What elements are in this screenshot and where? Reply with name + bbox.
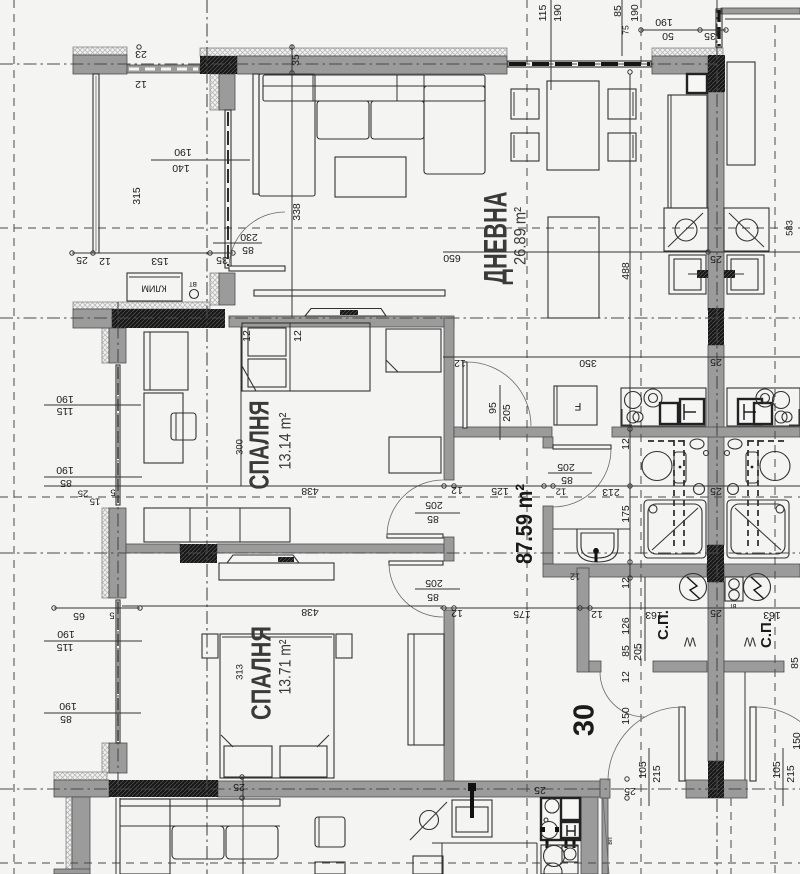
line corridor east edge xyxy=(744,672,746,780)
ext line x783 xyxy=(782,748,784,806)
svg-text:5: 5 xyxy=(110,486,115,497)
svg-text:205: 205 xyxy=(501,404,513,422)
insulation west column A xyxy=(102,328,109,363)
wall between bedrooms west stub xyxy=(126,544,180,553)
svg-text:175: 175 xyxy=(513,608,531,620)
svg-text:85: 85 xyxy=(612,5,624,17)
svg-text:13.14 m²: 13.14 m² xyxy=(276,412,294,469)
svg-text:438: 438 xyxy=(301,606,319,618)
axis horizontal 7 dashed xyxy=(0,862,800,864)
svg-text:12: 12 xyxy=(451,607,463,619)
wall top main (north living) xyxy=(237,56,507,74)
duct dashed lines left xyxy=(673,440,675,548)
burner circles right kitchen xyxy=(773,392,790,409)
stove below xyxy=(541,798,580,840)
axis vertical C dashed xyxy=(526,0,528,874)
shower tray left xyxy=(644,500,706,558)
wall black party B xyxy=(707,545,724,582)
bed bedroom2 xyxy=(220,634,334,778)
svg-text:85: 85 xyxy=(620,645,632,657)
desk bedroom1 south xyxy=(389,437,441,473)
svg-text:вп: вп xyxy=(607,837,614,845)
balcony parapet west xyxy=(93,74,99,253)
dim line door1 xyxy=(415,512,460,514)
line unit boundary east xyxy=(629,74,631,660)
window bedroom2 west xyxy=(116,600,120,743)
kitchen sink dark left xyxy=(660,403,678,424)
dim line left r2 xyxy=(44,476,142,478)
dining chair 2 xyxy=(511,133,539,161)
wall balcony parapet north thin xyxy=(127,65,200,73)
door living-hall xyxy=(463,362,467,428)
svg-text:12: 12 xyxy=(556,485,567,496)
wall black between-bedrooms xyxy=(180,544,217,563)
svg-text:313: 313 xyxy=(235,664,246,680)
dim line bedroom2 y606 xyxy=(122,605,444,607)
wall west column A xyxy=(109,328,126,363)
wall bath west jamb xyxy=(543,437,553,448)
svg-text:115: 115 xyxy=(537,4,549,21)
svg-text:213: 213 xyxy=(602,486,620,498)
ext line x292 xyxy=(291,45,293,317)
svg-text:87.59 m²: 87.59 m² xyxy=(511,484,537,564)
axis vertical B dash-dot xyxy=(206,0,208,874)
door bedroom2 xyxy=(389,561,443,565)
dim line left r5 xyxy=(44,712,141,714)
armchair below xyxy=(315,817,345,847)
dim line top right xyxy=(641,29,726,31)
svg-text:КЛИМ: КЛИМ xyxy=(141,284,166,294)
line storage room left edge xyxy=(644,577,646,661)
svg-text:25: 25 xyxy=(624,785,636,797)
washer below xyxy=(410,802,447,840)
line hall-living boundary xyxy=(443,356,800,358)
wall bedroom2 south / bottom main xyxy=(218,781,600,797)
svg-text:W: W xyxy=(743,635,756,650)
wall black sw xyxy=(109,780,218,797)
svg-text:12: 12 xyxy=(454,357,466,369)
line kitchen counter bottom-left edge xyxy=(432,842,537,844)
svg-text:25: 25 xyxy=(534,784,546,796)
wardrobe bedroom1 south xyxy=(144,508,290,542)
svg-text:126: 126 xyxy=(620,617,632,635)
laundry sink left xyxy=(669,255,706,294)
drain circle right xyxy=(728,484,739,495)
svg-text:25: 25 xyxy=(710,485,722,497)
svg-text:вт: вт xyxy=(189,280,197,289)
shaft box ne corner xyxy=(687,74,707,93)
wall west block lower xyxy=(219,273,235,305)
kitchen counter neighbour xyxy=(727,388,800,426)
svg-text:12: 12 xyxy=(620,671,632,683)
insulation top-right wall xyxy=(652,48,723,56)
wall black balcony south xyxy=(112,309,225,328)
wall bath west lower xyxy=(543,506,553,564)
shower tray right xyxy=(727,500,789,558)
dim line left r1 xyxy=(44,404,141,406)
svg-text:30: 30 xyxy=(569,704,601,736)
wall below corridor thin xyxy=(603,798,609,874)
kitchen counter our unit xyxy=(621,388,706,426)
wall kitchen east bottom xyxy=(581,797,598,874)
insulation west column B xyxy=(102,508,109,598)
axis vertical west wall dash-dot xyxy=(117,302,119,797)
svg-text:190: 190 xyxy=(655,16,673,28)
dim line left r4 xyxy=(44,640,142,642)
wall party vertical upper xyxy=(708,92,724,310)
svg-text:85: 85 xyxy=(427,513,439,525)
svg-text:26.89 m²: 26.89 m² xyxy=(510,207,529,265)
svg-text:215: 215 xyxy=(785,765,797,783)
wall top-left balcony block xyxy=(73,55,127,74)
nightstand bedroom2 right xyxy=(336,634,352,658)
wall corridor west xyxy=(577,568,589,672)
ext line x241 xyxy=(240,327,242,486)
axis vertical G dashed short xyxy=(730,798,732,874)
dining chair 1 xyxy=(511,89,539,119)
svg-text:105: 105 xyxy=(771,761,783,779)
insulation sw wall xyxy=(66,797,72,874)
svg-text:105: 105 xyxy=(637,761,649,779)
svg-text:СПАЛНЯ: СПАЛНЯ xyxy=(245,626,276,720)
svg-text:190: 190 xyxy=(57,628,75,640)
vent box with fan symbol left xyxy=(664,208,708,251)
svg-text:488: 488 xyxy=(620,262,632,280)
svg-text:F: F xyxy=(574,400,581,412)
svg-text:190: 190 xyxy=(552,4,564,22)
door bedroom1 xyxy=(387,534,443,538)
svg-text:150: 150 xyxy=(620,707,632,725)
svg-text:12: 12 xyxy=(620,438,632,450)
vent pipes double circle xyxy=(725,577,743,601)
svg-text:175: 175 xyxy=(620,505,632,523)
toilet left xyxy=(642,452,672,481)
axis vertical A dashed xyxy=(13,0,15,874)
sofa apartment below xyxy=(120,799,280,806)
wall kitchen south A xyxy=(454,427,552,437)
svg-text:190: 190 xyxy=(629,4,641,22)
vent box with fan symbol right xyxy=(724,208,769,251)
door balcony living xyxy=(229,266,285,271)
axis horizontal 2 dashed xyxy=(0,227,800,229)
wall black block top-west xyxy=(200,56,237,74)
coffee table xyxy=(335,157,406,197)
wall balcony south gray xyxy=(73,309,112,328)
wall party vertical lower xyxy=(708,582,724,761)
dim line bathdoor xyxy=(548,472,592,474)
window north living xyxy=(508,61,651,67)
svg-text:85: 85 xyxy=(427,591,439,603)
duct dashed lines right xyxy=(747,440,749,548)
ext line x500 xyxy=(499,385,501,440)
dining chair 3 xyxy=(608,89,636,119)
svg-text:12: 12 xyxy=(620,577,632,589)
dining table xyxy=(547,81,599,170)
line neighbour room top-right xyxy=(725,18,800,20)
wall bath south / corridor north xyxy=(543,564,707,577)
svg-text:205: 205 xyxy=(425,577,443,589)
wall west block upper xyxy=(219,74,235,110)
svg-text:12: 12 xyxy=(135,78,147,90)
wall hall west vertical upper xyxy=(444,318,454,480)
wall black corner ne xyxy=(708,55,725,92)
svg-text:85: 85 xyxy=(561,474,573,486)
door entry left unit xyxy=(679,707,685,781)
wall west column B xyxy=(109,508,126,598)
svg-text:125: 125 xyxy=(491,485,509,497)
svg-text:35: 35 xyxy=(704,30,716,42)
insulation balcony south wall xyxy=(73,302,210,309)
wall hall west vertical block xyxy=(444,537,454,561)
dimension ticks xyxy=(137,45,141,49)
svg-text:115: 115 xyxy=(56,405,73,417)
window top-right vertical xyxy=(716,9,722,47)
svg-text:75: 75 xyxy=(620,25,630,35)
fridge box kitchen xyxy=(554,386,597,425)
wall top-right horizontal (neighbour) xyxy=(721,8,800,14)
svg-text:12: 12 xyxy=(292,330,304,342)
svg-text:65: 65 xyxy=(73,610,85,622)
kitchen sink dark right xyxy=(738,399,762,424)
svg-text:50: 50 xyxy=(662,30,674,42)
dim line balcony row xyxy=(72,252,233,254)
side table below xyxy=(315,862,345,874)
insulation top-left block xyxy=(73,47,127,55)
svg-text:15: 15 xyxy=(90,495,101,506)
ext line x551 xyxy=(550,0,552,90)
axis vertical E dash-dot party xyxy=(716,0,718,874)
bed bedroom1 xyxy=(242,323,370,391)
dim line left r3 xyxy=(54,607,140,609)
insulation west column C xyxy=(102,743,109,773)
sideboard living south wall xyxy=(254,290,445,296)
insulation top main wall xyxy=(200,48,507,56)
svg-text:140: 140 xyxy=(172,162,190,174)
svg-text:205: 205 xyxy=(632,643,644,661)
dim line door2 xyxy=(415,588,460,590)
svg-text:85: 85 xyxy=(60,477,72,489)
wall party bottom flange xyxy=(686,780,747,798)
svg-text:350: 350 xyxy=(579,357,597,369)
dim line 190-140 xyxy=(151,159,250,161)
axis horizontal 3 dash-dot xyxy=(0,317,800,319)
svg-text:315: 315 xyxy=(131,187,143,205)
svg-text:190: 190 xyxy=(174,146,192,158)
wall between bedrooms east xyxy=(217,544,444,553)
window west glass-door living xyxy=(225,110,231,268)
insulation west column lower xyxy=(210,273,219,305)
svg-text:438: 438 xyxy=(301,485,319,497)
washbasin bathroom xyxy=(577,529,618,562)
svg-text:25: 25 xyxy=(78,487,89,498)
dim line y252 xyxy=(443,251,800,253)
burner circles left kitchen xyxy=(625,392,642,409)
svg-text:85: 85 xyxy=(60,713,72,725)
svg-text:583: 583 xyxy=(785,220,796,236)
desk bedroom1 west xyxy=(144,393,183,463)
counter below 2 xyxy=(541,845,578,874)
svg-text:СПАЛНЯ: СПАЛНЯ xyxy=(243,401,274,490)
svg-text:205: 205 xyxy=(425,499,443,511)
svg-text:25: 25 xyxy=(710,607,722,619)
svg-text:190: 190 xyxy=(56,464,74,476)
svg-text:153: 153 xyxy=(151,255,169,267)
dim line 230-85 xyxy=(213,242,262,244)
svg-text:190: 190 xyxy=(56,393,74,405)
cot bedroom1 xyxy=(386,329,441,372)
svg-text:35: 35 xyxy=(290,54,302,66)
insulation west column upper xyxy=(210,74,219,110)
svg-text:25: 25 xyxy=(76,254,88,266)
dim line right y608 xyxy=(440,607,800,609)
svg-text:150: 150 xyxy=(791,732,800,750)
wall sw corner gray xyxy=(54,780,109,797)
drain circle left xyxy=(694,484,705,495)
label ovt symbol xyxy=(190,290,199,299)
svg-text:190: 190 xyxy=(59,700,77,712)
svg-text:215: 215 xyxy=(651,765,663,783)
wardrobe bedroom1 west xyxy=(144,332,188,390)
svg-text:23: 23 xyxy=(135,48,147,60)
tv bedroom2 wall xyxy=(227,555,299,563)
wardrobe bedroom2 east xyxy=(408,634,444,745)
svg-text:95: 95 xyxy=(487,402,499,414)
nightstand bedroom2 left xyxy=(202,634,218,658)
svg-text:13.71 m²: 13.71 m² xyxy=(276,639,294,694)
tv bedroom1 wall xyxy=(305,309,386,317)
sofa sectional xyxy=(253,74,259,194)
ext line x622 xyxy=(621,0,623,56)
laundry sink right xyxy=(727,255,764,294)
svg-text:205: 205 xyxy=(557,461,575,473)
svg-text:12: 12 xyxy=(241,330,253,342)
chair bedroom1 xyxy=(171,413,196,440)
dim line mid y486 xyxy=(44,485,800,487)
insulation sw corner xyxy=(54,772,107,780)
door entry right unit xyxy=(750,707,756,781)
wall bedroom1 north gray xyxy=(229,316,454,327)
svg-text:25: 25 xyxy=(710,356,722,368)
svg-text:85: 85 xyxy=(789,657,800,669)
neighbour counter east xyxy=(727,62,755,165)
axis horizontal 4 dashed xyxy=(0,496,800,498)
svg-text:650: 650 xyxy=(443,252,461,264)
svg-text:ДНЕВНА: ДНЕВНА xyxy=(477,192,513,285)
svg-text:С.П.: С.П. xyxy=(655,610,672,640)
wall stub bottom-left of corridor xyxy=(600,779,610,798)
axis vertical D dashed xyxy=(640,0,642,874)
svg-text:12: 12 xyxy=(451,484,463,496)
wall kitchen south B xyxy=(612,427,800,437)
line bathroom counter xyxy=(553,528,630,530)
svg-text:230: 230 xyxy=(240,231,258,243)
water heater left xyxy=(680,574,707,601)
svg-text:5: 5 xyxy=(109,609,114,620)
svg-text:12: 12 xyxy=(591,608,603,620)
axis horizontal 6 dash-dot xyxy=(0,788,800,790)
sink below xyxy=(452,800,492,837)
svg-text:338: 338 xyxy=(291,203,303,221)
small table below xyxy=(413,856,443,874)
wall black party A xyxy=(708,308,724,345)
wall black party C xyxy=(708,761,724,798)
axis horizontal 5 dash-dot xyxy=(0,552,800,554)
svg-text:35: 35 xyxy=(216,254,228,266)
svg-text:115: 115 xyxy=(56,641,73,653)
door bathroom xyxy=(553,445,611,449)
svg-text:W: W xyxy=(683,635,696,650)
wall party vertical mid xyxy=(708,345,724,545)
svg-text:25: 25 xyxy=(710,253,722,265)
wall hall west vertical lower xyxy=(444,610,454,781)
svg-text:вт: вт xyxy=(729,602,737,609)
wall storage rooms bottom xyxy=(653,661,707,672)
svg-text:12: 12 xyxy=(99,255,111,267)
rug living xyxy=(548,217,599,318)
window bedroom1 west xyxy=(116,365,120,505)
label klim box xyxy=(127,273,182,301)
counter ne niche xyxy=(668,95,707,208)
dresser bedroom2 xyxy=(219,563,334,580)
door storage left xyxy=(600,672,645,717)
svg-text:25: 25 xyxy=(233,781,245,793)
toilet right xyxy=(760,452,790,481)
wall sw vertical xyxy=(72,797,90,874)
svg-text:85: 85 xyxy=(242,244,254,256)
ext line x243 low xyxy=(242,777,244,874)
svg-text:С.П.: С.П. xyxy=(758,618,775,648)
axis horizontal 1 dash-dot xyxy=(0,63,717,65)
water heater right xyxy=(744,574,771,601)
wall west column C xyxy=(109,743,127,773)
dining chair 4 xyxy=(608,133,636,161)
axis vertical F dashed xyxy=(774,25,776,874)
ext line x649 xyxy=(648,748,650,806)
svg-text:12: 12 xyxy=(570,572,580,582)
wall north-east segment xyxy=(652,56,708,74)
